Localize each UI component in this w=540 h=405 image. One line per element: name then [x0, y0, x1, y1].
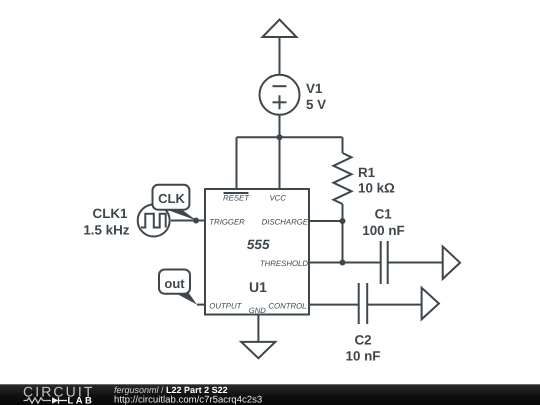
wire discharge to threshold: [342, 221, 344, 263]
wire THRESHOLD to C1: [309, 262, 381, 264]
wire bus to R1: [342, 137, 344, 153]
svg-text:100 nF: 100 nF: [362, 223, 404, 238]
node flag out: [159, 270, 197, 305]
capacitor C2: [359, 283, 368, 324]
output arrow node C2: [422, 288, 439, 320]
node discharge junction: [340, 218, 346, 224]
wire C1 to arrow: [388, 262, 443, 264]
svg-text:10 kΩ: 10 kΩ: [358, 181, 395, 196]
wire CLK1 to trigger: [171, 220, 205, 222]
svg-text:R1: R1: [358, 165, 376, 180]
svg-text:GND: GND: [249, 306, 267, 315]
svg-text:5 V: 5 V: [306, 97, 326, 112]
svg-text:C1: C1: [375, 206, 393, 221]
wire DISCHARGE stub: [309, 220, 343, 222]
svg-text:C2: C2: [354, 332, 371, 347]
wire R1 to discharge node: [342, 204, 344, 221]
clock source CLK1: [138, 205, 170, 237]
wire GND drop: [257, 315, 259, 342]
svg-text:V1: V1: [306, 81, 323, 96]
svg-text:CONTROL: CONTROL: [268, 302, 306, 311]
svg-text:THRESHOLD: THRESHOLD: [260, 259, 308, 268]
wire top bus: [237, 136, 343, 138]
node threshold junction: [340, 260, 346, 266]
wire CONTROL to C2: [309, 304, 359, 306]
voltage source V1: [260, 75, 300, 115]
wire VCC drop: [279, 137, 281, 189]
wire out flag to OUTPUT: [197, 304, 205, 306]
node trigger junction: [193, 218, 199, 224]
capacitor C1: [381, 241, 388, 284]
svg-text:U1: U1: [249, 279, 267, 295]
svg-text:http://circuitlab.com/c7r5acrq: http://circuitlab.com/c7r5acrq4c2s3: [114, 394, 262, 405]
svg-text:OUTPUT: OUTPUT: [209, 302, 242, 311]
svg-text:1.5 kHz: 1.5 kHz: [83, 223, 129, 238]
resistor R1: [334, 153, 352, 204]
ground: [241, 342, 275, 358]
wire RESET drop: [236, 137, 238, 189]
svg-text:DISCHARGE: DISCHARGE: [262, 217, 309, 226]
output arrow node C1: [443, 247, 460, 279]
IC U1 555 timer: [205, 189, 309, 315]
footer logo waveform: [24, 398, 52, 403]
svg-text:CLK: CLK: [158, 191, 185, 206]
wire V1 to bus: [279, 115, 281, 138]
svg-text:out: out: [164, 276, 185, 291]
svg-text:555: 555: [247, 237, 270, 252]
svg-text:LAB: LAB: [68, 395, 95, 405]
svg-text:VCC: VCC: [269, 193, 286, 202]
svg-text:10 nF: 10 nF: [346, 349, 381, 364]
svg-text:RESET: RESET: [223, 193, 250, 202]
node flag CLK: [153, 185, 197, 221]
node junction under V1: [277, 134, 283, 140]
power flag VDD: [263, 20, 297, 75]
svg-text:CLK1: CLK1: [93, 206, 129, 221]
footer bar: [0, 384, 540, 405]
svg-text:TRIGGER: TRIGGER: [209, 217, 245, 226]
wire C2 to arrow: [367, 304, 421, 306]
